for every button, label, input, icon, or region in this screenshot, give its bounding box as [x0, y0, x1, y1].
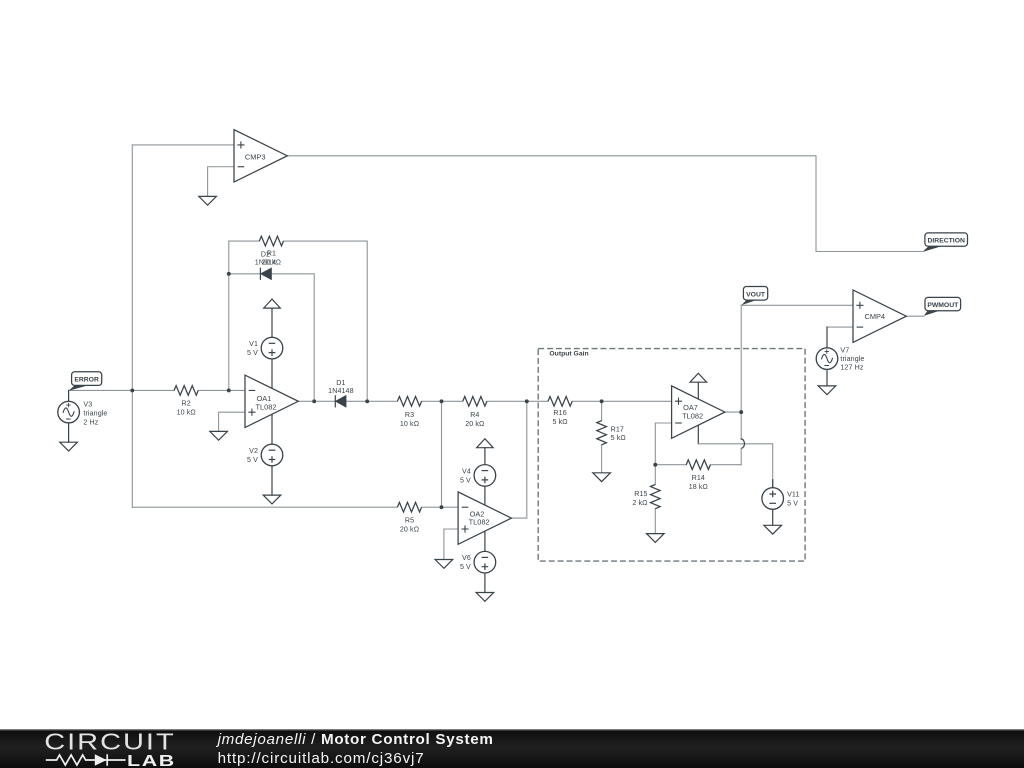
resistor R1 [259, 236, 283, 266]
svg-text:5 V: 5 V [247, 349, 258, 357]
svg-text:2 Hz: 2 Hz [83, 419, 98, 427]
footer bar [0, 728, 1024, 768]
resistor R17 [597, 421, 626, 445]
flag ERROR [69, 372, 102, 391]
svg-text:ERROR: ERROR [74, 377, 99, 384]
op-amp CMP3 [234, 130, 287, 182]
junction at OA1 inverting input node [227, 388, 231, 392]
svg-text:5 V: 5 V [460, 563, 471, 571]
wire node R3R4 down to R5 node [441, 401, 443, 507]
wire R1 right lead down to output line [284, 241, 368, 401]
voltage source V2 [247, 444, 283, 466]
svg-text:2 kΩ: 2 kΩ [632, 499, 647, 507]
svg-text:triangle: triangle [840, 355, 864, 363]
svg-text:10 kΩ: 10 kΩ [177, 408, 196, 416]
svg-text:R5: R5 [405, 517, 414, 525]
ground V3 [60, 442, 78, 451]
wire bottom feedback to R5 [132, 506, 397, 508]
svg-text:CMP4: CMP4 [865, 312, 886, 321]
voltage source V6 [460, 551, 496, 573]
wire R14 right lead [710, 464, 741, 466]
resistor R15 [632, 485, 660, 509]
op-amp OA2 [458, 492, 511, 544]
wire R17 top lead [601, 401, 603, 420]
wire R5 to OA2 -in [422, 506, 458, 508]
svg-text:Output Gain: Output Gain [549, 351, 588, 358]
svg-text:5 V: 5 V [787, 499, 798, 507]
wire CMP3 +in [132, 144, 234, 146]
wire R15 bottom lead [654, 509, 656, 534]
wire CMP4 output to PWMOUT [906, 315, 924, 317]
wire OA2 feedback vertical [511, 401, 526, 518]
svg-text:5 kΩ: 5 kΩ [553, 418, 568, 426]
wire R4 to R16 [487, 400, 548, 402]
svg-text:DIRECTION: DIRECTION [928, 238, 965, 245]
voltage source V4 [460, 465, 496, 487]
svg-text:TL082: TL082 [256, 402, 277, 411]
svg-text:V3: V3 [83, 401, 92, 409]
svg-text:TL082: TL082 [469, 518, 490, 527]
svg-text:triangle: triangle [83, 410, 107, 418]
svg-text:R15: R15 [634, 490, 647, 498]
svg-text:D1: D1 [336, 379, 345, 387]
junction at R3-R4 node [440, 399, 444, 403]
ground OA2 +in [435, 560, 453, 569]
arrow V4 rail [477, 439, 494, 448]
voltage source V3 [58, 401, 108, 427]
wire left feedback vertical [131, 145, 133, 507]
svg-text:jmdejoanelli / Motor Control S: jmdejoanelli / Motor Control System [216, 731, 494, 748]
resistor R2 [174, 386, 198, 417]
diode D1 [328, 379, 353, 407]
junction at ERROR feedback tap [130, 388, 134, 392]
junction at D2 anode node [227, 272, 231, 276]
arrow V1 rail [264, 299, 281, 308]
svg-text:R16: R16 [553, 409, 566, 417]
svg-text:LAB: LAB [127, 752, 176, 768]
junction at OA1 output node [312, 399, 316, 403]
svg-text:20 kΩ: 20 kΩ [465, 420, 484, 428]
wire OA7 bottom pin to V11 with hop [697, 425, 699, 444]
wire arrow to V4 [484, 448, 486, 465]
svg-text:V11: V11 [787, 490, 799, 498]
wire OA2 +in to ground [444, 529, 458, 560]
junction at R1-D1 node [365, 399, 369, 403]
svg-text:V4: V4 [462, 467, 471, 475]
junction at R17 tap node [600, 399, 604, 403]
svg-text:10 kΩ: 10 kΩ [400, 420, 419, 428]
svg-text:VOUT: VOUT [746, 291, 766, 298]
wire R14 left lead [655, 464, 686, 466]
wire D1 to R3 [346, 400, 397, 402]
wire OA1 output to D1 [298, 400, 335, 402]
wire OA1 bottom pin to V2 [271, 414, 273, 444]
ground V7 [818, 386, 836, 395]
wire CMP3 -in to ground [208, 167, 234, 197]
wire VOUT to CMP4 +in [741, 304, 853, 306]
svg-text:5 V: 5 V [460, 476, 471, 484]
svg-text:5 kΩ: 5 kΩ [611, 434, 626, 442]
dashed box Output Gain [538, 349, 805, 561]
wire OA1 +in to ground [219, 412, 245, 431]
diode D2 [255, 250, 276, 280]
wire OA2 bottom pin to V6 [484, 531, 486, 551]
flag DIRECTION [922, 233, 967, 252]
op-amp CMP4 [853, 290, 906, 342]
ground R15 [647, 534, 665, 543]
wire V2 to ground [271, 466, 273, 495]
op-amp OA1 [245, 375, 298, 427]
voltage source V7 [816, 347, 864, 372]
svg-text:TL082: TL082 [682, 411, 703, 420]
flag PWMOUT [924, 297, 961, 316]
junction at R5-OA2 node [440, 505, 444, 509]
junction at OA7 output node VOUT [739, 410, 743, 414]
ground V6 [476, 593, 494, 602]
junction at R4-R16 node [525, 399, 529, 403]
flag VOUT [741, 287, 768, 306]
wire V4 to OA2 top pin [484, 486, 486, 505]
svg-text:R17: R17 [611, 425, 624, 433]
wire R16 to OA7 +in [572, 400, 671, 402]
svg-text:V1: V1 [249, 340, 258, 348]
svg-text:127 Hz: 127 Hz [840, 364, 863, 372]
wire arrow to V1 [271, 308, 273, 337]
wire V3 stem bottom [68, 423, 70, 442]
svg-text:20 kΩ: 20 kΩ [400, 526, 419, 534]
svg-text:5 V: 5 V [247, 456, 258, 464]
ground CMP3 [199, 196, 217, 205]
resistor R4 [463, 397, 487, 428]
wire OA7 output [725, 411, 741, 413]
resistor R3 [397, 397, 421, 428]
wire hop over supply wire [741, 439, 744, 448]
wire R3 to R4 [422, 400, 463, 402]
wire R1 left lead [229, 240, 259, 242]
svg-text:R2: R2 [182, 399, 191, 407]
svg-text:D2: D2 [261, 250, 270, 258]
svg-text:V2: V2 [249, 447, 258, 455]
wire OA7 -in down to R14 node [655, 423, 671, 465]
ground V11 [764, 525, 782, 534]
logo resistor-diode glyph [46, 755, 95, 765]
arrow OA7 rail [690, 373, 707, 382]
svg-text:1N4148: 1N4148 [328, 387, 353, 395]
svg-text:V6: V6 [462, 554, 471, 562]
wire arrow to OA7 top pin [697, 382, 699, 399]
ground V2 [263, 495, 281, 504]
resistor R5 [397, 502, 421, 533]
wire CMP3 output to DIRECTION [287, 156, 922, 252]
wire D2 left lead [229, 273, 261, 275]
wire CMP4 -in to V7 [827, 326, 853, 328]
wire R2 to OA1 -in [198, 389, 245, 391]
op-amp OA7 [672, 386, 725, 438]
wire VOUT vertical lower [740, 448, 742, 464]
svg-text:18 kΩ: 18 kΩ [689, 483, 708, 491]
wire V3 stem top [68, 390, 70, 401]
wire V6 to ground [484, 573, 486, 593]
svg-text:R3: R3 [405, 411, 414, 419]
ground R17 [593, 473, 611, 482]
wire R1-D2 left vertical [228, 241, 230, 390]
wire VOUT vertical upper [740, 305, 742, 439]
wire V11 to ground [772, 509, 774, 525]
wire D2 right lead down to OA1 output [271, 274, 314, 402]
wire V1 to OA1 top pin [271, 359, 273, 389]
resistor R16 [548, 397, 572, 427]
svg-text:CMP3: CMP3 [245, 152, 266, 161]
resistor R14 [686, 460, 710, 491]
wire R17 bottom lead [601, 445, 603, 473]
svg-text:http://circuitlab.com/cj36vj7: http://circuitlab.com/cj36vj7 [218, 750, 425, 767]
voltage source V11 [762, 488, 800, 510]
ground OA1 +in [210, 431, 228, 440]
junction at OA7 inverting node [653, 463, 657, 467]
svg-text:R4: R4 [470, 411, 479, 419]
svg-text:PWMOUT: PWMOUT [927, 302, 959, 309]
svg-text:1N914: 1N914 [255, 258, 276, 266]
wire V7 to ground [826, 369, 828, 386]
svg-text:V7: V7 [840, 347, 849, 355]
svg-text:R14: R14 [692, 474, 705, 482]
wire V3 to R2 [69, 389, 175, 391]
voltage source V1 [247, 337, 283, 359]
wire R15 top lead [654, 465, 656, 485]
